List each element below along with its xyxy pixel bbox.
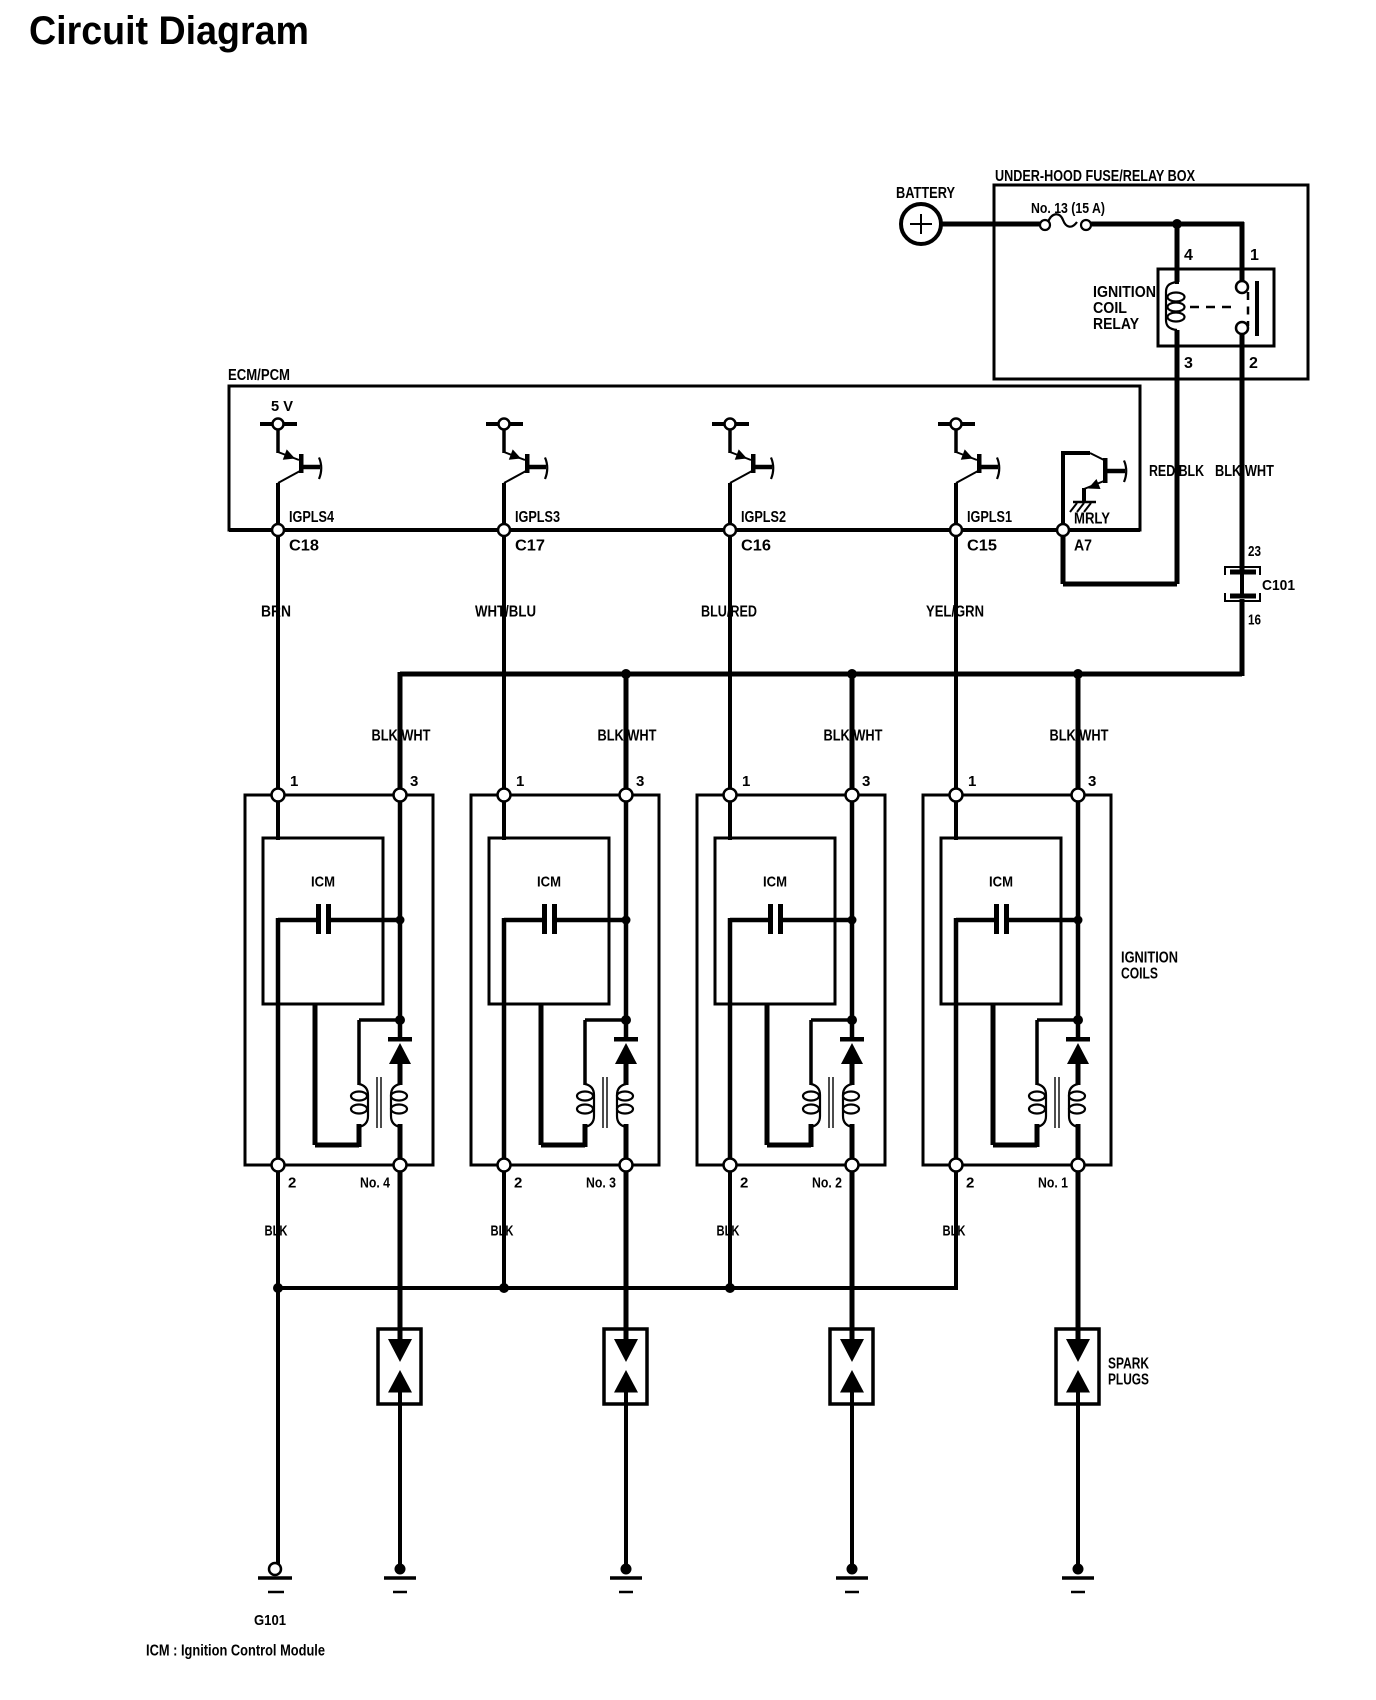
- svg-text:SPARK: SPARK: [1108, 1356, 1149, 1373]
- ECM terminal A7 (MRLY): [1057, 511, 1110, 555]
- svg-text:BLU/RED: BLU/RED: [701, 604, 757, 621]
- svg-text:BATTERY: BATTERY: [896, 185, 955, 202]
- wire secondary to terminal: [624, 1124, 629, 1159]
- wire capacitor to pin 2: [954, 918, 959, 1159]
- svg-text:IGNITION: IGNITION: [1093, 284, 1156, 301]
- svg-text:2: 2: [288, 1175, 296, 1192]
- BLK ground bus: [278, 1286, 956, 1290]
- coil box No. 1: [923, 795, 1111, 1165]
- ECM terminal C15 (IGPLS1): [950, 509, 1012, 555]
- spark plugs label: [1108, 1356, 1149, 1389]
- node bus junction (No.2): [847, 669, 857, 679]
- wire coil No. 2 to spark plug: [850, 1171, 855, 1339]
- svg-text:COILS: COILS: [1121, 966, 1158, 983]
- svg-text:3: 3: [862, 773, 870, 790]
- wire pin 3 down (B+): [624, 801, 629, 1039]
- svg-text:BLK/WHT: BLK/WHT: [598, 728, 657, 745]
- spark plug No. 2: [830, 1329, 873, 1404]
- wire junction to primary winding: [811, 1020, 848, 1085]
- svg-text:No. 4: No. 4: [360, 1175, 391, 1192]
- node ground bus junction (No.2): [725, 1283, 735, 1293]
- ignition coil unit No. 2: [697, 773, 885, 1192]
- svg-text:No. 2: No. 2: [812, 1175, 842, 1192]
- wire secondary to terminal: [850, 1124, 855, 1159]
- pin 1: [272, 789, 285, 802]
- svg-text:UNDER-HOOD FUSE/RELAY BOX: UNDER-HOOD FUSE/RELAY BOX: [995, 168, 1195, 185]
- wire ICM to primary: [541, 1004, 585, 1147]
- ECM connector row line: [229, 528, 1140, 532]
- wire to relay pin 1: [1240, 222, 1245, 282]
- spark plug No. 1: [1056, 1329, 1099, 1404]
- transistor driver IGPLS3: [486, 419, 547, 526]
- node primary junction: [395, 1015, 405, 1025]
- svg-text:IGPLS4: IGPLS4: [289, 509, 334, 526]
- relay contact dashed link: [1190, 292, 1248, 326]
- wire spark plug to ground: [1076, 1392, 1080, 1568]
- transformer core: [603, 1077, 607, 1128]
- wire BLK from coil No. 1 pin 2: [954, 1171, 958, 1290]
- wire BLK from coil No. 2 pin 2: [728, 1171, 732, 1290]
- svg-text:BLK/WHT: BLK/WHT: [1050, 728, 1109, 745]
- pin 1: [498, 789, 511, 802]
- wire BLU/RED from C16 to ignition coil: [728, 536, 732, 789]
- wire BLK from coil No. 3 pin 2: [502, 1171, 506, 1290]
- pin 1: [950, 789, 963, 802]
- wire capacitor to pin 2: [276, 918, 281, 1159]
- transistor driver IGPLS2: [712, 419, 773, 526]
- svg-text:ECM/PCM: ECM/PCM: [228, 367, 290, 384]
- svg-text:4: 4: [1184, 247, 1193, 264]
- node capacitor junction: [396, 916, 405, 925]
- primary winding: [1029, 1084, 1046, 1127]
- wire secondary to terminal: [1076, 1124, 1081, 1159]
- svg-text:RELAY: RELAY: [1093, 316, 1139, 333]
- ECM/PCM box: [229, 386, 1140, 530]
- wire coil No. 1 to spark plug: [1076, 1171, 1081, 1339]
- svg-text:1: 1: [742, 773, 750, 790]
- svg-text:No. 3: No. 3: [586, 1175, 616, 1192]
- capacitor (ICM): [956, 904, 1078, 934]
- ground (MRLY emitter): [1070, 502, 1096, 512]
- capacitor (ICM): [504, 904, 626, 934]
- svg-text:RED/BLK: RED/BLK: [1149, 463, 1204, 480]
- coil box No. 4: [245, 795, 433, 1165]
- svg-text:WHT/BLU: WHT/BLU: [475, 604, 536, 621]
- diode: [840, 1037, 864, 1085]
- ignition coil unit No. 3: [471, 773, 659, 1192]
- svg-text:ICM: ICM: [311, 874, 335, 891]
- wire junction to primary winding: [585, 1020, 622, 1085]
- svg-text:1: 1: [516, 773, 524, 790]
- ICM box: [263, 838, 383, 1004]
- svg-text:BRN: BRN: [261, 604, 291, 621]
- svg-text:ICM : Ignition Control Module: ICM : Ignition Control Module: [146, 1643, 325, 1660]
- ground (spark plug No. 1): [1062, 1564, 1094, 1593]
- secondary winding: [843, 1084, 859, 1127]
- svg-text:BLK/WHT: BLK/WHT: [372, 728, 431, 745]
- svg-text:No. 13 (15 A): No. 13 (15 A): [1031, 200, 1105, 217]
- wire bus drop to coil No.2 pin 3: [850, 674, 855, 789]
- wire spark plug to ground: [624, 1392, 628, 1568]
- ground (spark plug No. 4): [384, 1564, 416, 1593]
- primary winding: [577, 1084, 594, 1127]
- wire capacitor to pin 2: [502, 918, 507, 1159]
- node capacitor junction: [1074, 916, 1083, 925]
- wire BRN from C18 to ignition coil: [276, 536, 280, 789]
- transformer core: [829, 1077, 833, 1128]
- wire YEL/GRN from C15 to ignition coil: [954, 536, 958, 789]
- fuse No. 13 (15 A): [1031, 200, 1105, 230]
- wire relay pin 2 (BLK/WHT): [1240, 334, 1245, 572]
- svg-text:No. 1: No. 1: [1038, 1175, 1068, 1192]
- svg-text:COIL: COIL: [1093, 300, 1127, 317]
- svg-text:BLK: BLK: [265, 1223, 288, 1240]
- transformer core: [377, 1077, 381, 1128]
- node ground bus junction (No.4): [273, 1283, 283, 1293]
- pin 3: [1072, 789, 1085, 802]
- svg-text:3: 3: [636, 773, 644, 790]
- wire junction to primary winding: [1037, 1020, 1074, 1085]
- wire battery to fuse: [941, 222, 1040, 227]
- secondary winding: [391, 1084, 407, 1127]
- ICM box: [715, 838, 835, 1004]
- node bus junction (No.1): [1073, 669, 1083, 679]
- wire A7 to relay pin 3 (RED/BLK): [1063, 536, 1177, 584]
- svg-text:ICM: ICM: [989, 874, 1013, 891]
- relay box: [1158, 269, 1274, 346]
- wire secondary to terminal: [398, 1124, 403, 1159]
- wire junction to primary winding: [359, 1020, 396, 1085]
- pin 3: [394, 789, 407, 802]
- secondary winding: [617, 1084, 633, 1127]
- spark plug No. 3: [604, 1329, 647, 1404]
- svg-text:ICM: ICM: [537, 874, 561, 891]
- svg-text:1: 1: [968, 773, 976, 790]
- ECM terminal C18 (IGPLS4): [272, 509, 334, 555]
- svg-text:2: 2: [740, 1175, 748, 1192]
- terminal No. 3: [620, 1159, 633, 1172]
- node primary junction: [1073, 1015, 1083, 1025]
- battery: [896, 185, 955, 244]
- svg-text:IGPLS3: IGPLS3: [515, 509, 560, 526]
- svg-text:IGPLS2: IGPLS2: [741, 509, 786, 526]
- secondary winding: [1069, 1084, 1085, 1127]
- ground (spark plug No. 3): [610, 1564, 642, 1593]
- spark plug No. 4: [378, 1329, 421, 1404]
- pin 1: [724, 789, 737, 802]
- wire ICM to primary: [315, 1004, 359, 1147]
- wire bus drop to coil No.3 pin 3: [624, 674, 629, 789]
- svg-text:YEL/GRN: YEL/GRN: [926, 604, 984, 621]
- svg-text:BLK/WHT: BLK/WHT: [1215, 463, 1274, 480]
- wire spark plug to ground: [398, 1392, 402, 1568]
- svg-text:A7: A7: [1074, 538, 1092, 555]
- pin 3: [620, 789, 633, 802]
- pin 2: [724, 1159, 737, 1172]
- svg-text:2: 2: [966, 1175, 974, 1192]
- wire to relay pin 4: [1175, 224, 1180, 282]
- terminal No. 1: [1072, 1159, 1085, 1172]
- ignition coil unit No. 4: [245, 773, 433, 1192]
- relay contacts: [1236, 281, 1257, 336]
- diode: [1066, 1037, 1090, 1085]
- wire coil No. 4 to spark plug: [398, 1171, 403, 1339]
- wire bus drop to coil No.1 pin 3: [1076, 674, 1081, 789]
- wire C101 to bus: [1240, 599, 1245, 676]
- BLK/WHT supply bus: [400, 672, 1242, 677]
- primary winding: [351, 1084, 368, 1127]
- wire pin 1 into ICM: [954, 801, 958, 840]
- diode: [388, 1037, 412, 1085]
- ground G101: [254, 1563, 292, 1629]
- node bus junction (No.3): [621, 669, 631, 679]
- wire bus drop to coil No.4 pin 3: [398, 672, 403, 789]
- node primary junction: [621, 1015, 631, 1025]
- wire BLK from coil No. 4 pin 2: [276, 1171, 280, 1290]
- svg-text:C18: C18: [289, 538, 319, 555]
- svg-text:BLK: BLK: [491, 1223, 514, 1240]
- ignition coils label: [1121, 950, 1178, 983]
- svg-text:C15: C15: [967, 538, 997, 555]
- svg-text:16: 16: [1248, 612, 1261, 629]
- capacitor (ICM): [730, 904, 852, 934]
- svg-text:IGPLS1: IGPLS1: [967, 509, 1012, 526]
- wire ICM to primary: [993, 1004, 1037, 1147]
- wire pin 3 down (B+): [398, 801, 403, 1039]
- pin 2: [950, 1159, 963, 1172]
- ECM terminal C17 (IGPLS3): [498, 509, 560, 555]
- wire pin 1 into ICM: [276, 801, 280, 840]
- terminal No. 4: [394, 1159, 407, 1172]
- svg-text:C16: C16: [741, 538, 771, 555]
- ICM box: [489, 838, 609, 1004]
- wire ground bus to G101: [276, 1288, 280, 1564]
- wire pin 1 into ICM: [502, 801, 506, 840]
- svg-text:IGNITION: IGNITION: [1121, 950, 1178, 967]
- svg-text:ICM: ICM: [763, 874, 787, 891]
- svg-text:G101: G101: [254, 1612, 286, 1629]
- node ground bus junction (No.3): [499, 1283, 509, 1293]
- svg-text:1: 1: [290, 773, 298, 790]
- pin 3: [846, 789, 859, 802]
- wire coil No. 3 to spark plug: [624, 1171, 629, 1339]
- wire pin 3 down (B+): [1076, 801, 1081, 1039]
- svg-text:MRLY: MRLY: [1074, 511, 1110, 528]
- wire ICM to primary: [767, 1004, 811, 1147]
- terminal No. 2: [846, 1159, 859, 1172]
- svg-text:PLUGS: PLUGS: [1108, 1372, 1149, 1389]
- wire WHT/BLU from C17 to ignition coil: [502, 536, 506, 789]
- svg-text:BLK/WHT: BLK/WHT: [824, 728, 883, 745]
- svg-text:23: 23: [1248, 543, 1261, 560]
- capacitor (ICM): [278, 904, 400, 934]
- svg-text:1: 1: [1250, 247, 1259, 264]
- svg-text:2: 2: [1249, 355, 1258, 372]
- wire fuse to relay pins 1 and 4: [1091, 222, 1244, 227]
- ground (spark plug No. 2): [836, 1564, 868, 1593]
- diode: [614, 1037, 638, 1085]
- wire spark plug to ground: [850, 1392, 854, 1568]
- svg-text:3: 3: [1184, 355, 1193, 372]
- svg-text:2: 2: [514, 1175, 522, 1192]
- wire capacitor to pin 2: [728, 918, 733, 1159]
- svg-text:3: 3: [410, 773, 418, 790]
- ignition coil relay label: [1093, 284, 1156, 333]
- svg-text:BLK: BLK: [943, 1223, 966, 1240]
- node battery feed junction: [1172, 219, 1182, 229]
- transistor driver IGPLS1: [938, 419, 999, 526]
- ICM box: [941, 838, 1061, 1004]
- svg-text:BLK: BLK: [717, 1223, 740, 1240]
- svg-text:Circuit Diagram: Circuit Diagram: [29, 9, 309, 53]
- svg-text:C17: C17: [515, 538, 545, 555]
- under-hood fuse/relay box: [994, 168, 1308, 379]
- svg-text:C101: C101: [1262, 577, 1295, 594]
- node capacitor junction: [848, 916, 857, 925]
- coil box No. 3: [471, 795, 659, 1165]
- transistor driver IGPLS4: [260, 419, 321, 526]
- ECM terminal C16 (IGPLS2): [724, 509, 786, 555]
- transformer core: [1055, 1077, 1059, 1128]
- node capacitor junction: [622, 916, 631, 925]
- transistor driver MRLY: [1061, 453, 1126, 526]
- pin 2: [498, 1159, 511, 1172]
- wire pin 1 into ICM: [728, 801, 732, 840]
- ignition coil unit No. 1: [923, 773, 1111, 1192]
- coil box No. 2: [697, 795, 885, 1165]
- relay coil: [1166, 278, 1185, 330]
- connector C101 pin 23/16: [1225, 543, 1295, 629]
- svg-text:5 V: 5 V: [271, 398, 293, 415]
- wire pin 3 down (B+): [850, 801, 855, 1039]
- pin 2: [272, 1159, 285, 1172]
- svg-text:3: 3: [1088, 773, 1096, 790]
- node primary junction: [847, 1015, 857, 1025]
- wire relay pin 3 (RED/BLK): [1175, 330, 1180, 584]
- primary winding: [803, 1084, 820, 1127]
